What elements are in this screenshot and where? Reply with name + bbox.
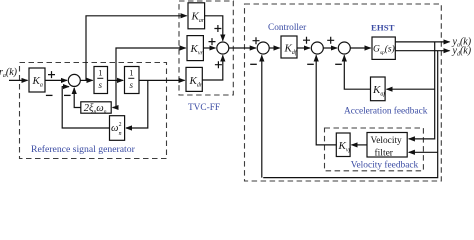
- svg-text:yd(k): yd(k): [452, 45, 472, 57]
- summing junction S4: [311, 42, 323, 54]
- svg-text:ra(k): ra(k): [0, 67, 18, 79]
- plant G_sp(s): [372, 37, 395, 59]
- wire displacement branch to velocity filter lower input: [409, 151, 438, 153]
- svg-text:filter: filter: [375, 147, 394, 158]
- integrator 2 (1/s): [125, 67, 140, 94]
- wire velocity filter to K_vf: [352, 144, 368, 146]
- gain K_vr: [187, 36, 203, 61]
- gain K_vf: [336, 133, 350, 157]
- svg-text:n: n: [119, 131, 122, 137]
- summing junction S1: [68, 74, 80, 86]
- gain K_dr: [186, 67, 202, 91]
- svg-text:Gsp(s): Gsp(s): [373, 44, 395, 57]
- wire K_df to S4 (plus): [297, 47, 310, 49]
- wire S1 to integrator 1: [80, 79, 92, 81]
- summing junction S3: [257, 42, 269, 54]
- svg-text:EHST: EHST: [371, 22, 395, 32]
- svg-text:Controller: Controller: [268, 23, 307, 33]
- svg-text:Velocity: Velocity: [371, 136, 403, 146]
- svg-text:2: 2: [119, 122, 122, 128]
- velocity feedback dashed box: [325, 128, 424, 171]
- gain K_ar: [188, 3, 205, 29]
- wire velocity tap up to K_vr: [116, 48, 186, 80]
- svg-text:ω: ω: [111, 123, 118, 134]
- minus sign feedback 2: [64, 94, 71, 96]
- gain K_df: [281, 36, 297, 58]
- svg-text:s: s: [99, 80, 103, 90]
- wire displacement feedback up to S3 bottom (minus): [261, 55, 263, 177]
- wire 2xi_n w_n back to S1 (minus): [74, 88, 81, 108]
- wire K_vr to S2 left (plus): [203, 47, 215, 49]
- wire K_a to S1 with plus: [45, 79, 67, 81]
- closed-loop dashed box: [245, 4, 442, 181]
- gain w_n^2: [110, 116, 125, 141]
- svg-text:1: 1: [98, 68, 102, 78]
- wire velocity tap down to 2xi_n w_n block: [113, 80, 116, 107]
- svg-text:Reference signal generator: Reference signal generator: [31, 144, 136, 155]
- velocity filter block: [367, 133, 407, 158]
- wire displacement tap down to w_n^2 block: [126, 80, 148, 128]
- wire S2 to S3: [229, 47, 256, 49]
- reference signal generator dashed box: [20, 63, 167, 159]
- wire integrator2 to K_dr (main displacement line): [139, 79, 185, 81]
- wire acceleration tap up to K_ar: [86, 16, 187, 81]
- wire acceleration feedback vertical: [409, 42, 435, 139]
- svg-text:1: 1: [129, 68, 133, 78]
- svg-text:s: s: [130, 80, 134, 90]
- wire S3 to K_df: [269, 47, 279, 49]
- wire K_af to S5 bottom (minus): [344, 55, 370, 89]
- wire output y_a(k): [395, 41, 449, 43]
- svg-text:TVC-FF: TVC-FF: [188, 103, 220, 113]
- integrator 1 (1/s): [94, 67, 108, 94]
- TVC-FF dashed box: [179, 1, 233, 95]
- wire S4 to S5 (plus): [323, 47, 337, 49]
- wire K_ar to S2 top (plus): [205, 16, 223, 41]
- wire acceleration branch to K_af: [387, 88, 435, 90]
- wire S5 to EHST plant: [350, 47, 370, 49]
- gain K_af: [371, 77, 386, 101]
- summing junction S5: [338, 42, 350, 54]
- wire input to K_a: [9, 79, 28, 81]
- wire integrator1 to integrator2: [108, 79, 124, 81]
- wire displacement feedback vertical: [263, 51, 438, 178]
- wire output y_d(k): [395, 50, 449, 52]
- summing junction S2: [217, 42, 229, 54]
- minus sign feedback 1: [46, 94, 53, 96]
- wire K_dr to S2 bottom (plus): [202, 55, 223, 80]
- wire w_n^2 back to S1 (minus): [62, 87, 109, 128]
- svg-text:Velocity feedback: Velocity feedback: [351, 159, 419, 170]
- wire K_vf to S4 bottom (minus): [316, 55, 336, 144]
- svg-text:Acceleration feedback: Acceleration feedback: [344, 105, 428, 116]
- gain 2xi_n w_n: [81, 102, 111, 113]
- gain K_a: [29, 68, 45, 92]
